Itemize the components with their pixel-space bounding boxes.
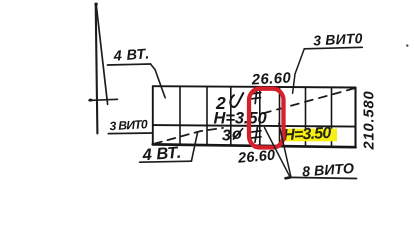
- svg-text:4 ВТ.: 4 ВТ.: [112, 46, 150, 65]
- label 3 VITO top-right leader: [293, 49, 305, 93]
- grid column line C5: [279, 87, 281, 146]
- label 8 VITO underline: [290, 177, 356, 178]
- svg-text:210.580: 210.580: [361, 90, 377, 150]
- grid column line C2: [206, 87, 208, 146]
- label 4 VT top underline: [108, 64, 151, 65]
- grid column line C4: [259, 87, 261, 146]
- grid column line C6: [305, 87, 307, 146]
- red box mark bottom (hatch): [251, 127, 261, 142]
- label 4 VT bottom leader: [191, 133, 197, 162]
- mast left line: [96, 4, 98, 134]
- grid bottom edge: [153, 144, 356, 147]
- speck dot top right: [406, 44, 408, 46]
- handwriting o-slash tail: [234, 129, 243, 140]
- mast base dot: [89, 99, 93, 102]
- svg-text:3: 3: [222, 127, 231, 144]
- svg-text:3 ВИТ0: 3 ВИТ0: [109, 117, 148, 133]
- svg-text:Н=3.50: Н=3.50: [283, 125, 332, 144]
- label 8 VITO leader right: [279, 123, 291, 177]
- grid middle line: [153, 125, 356, 127]
- grid right edge: [354, 88, 356, 148]
- svg-text:Н=3.50: Н=3.50: [214, 109, 268, 127]
- grid column line C3: [230, 87, 232, 146]
- red box mark top (hatch): [252, 89, 261, 104]
- grid left edge: [152, 86, 154, 144]
- label 8 VITO arrowhead: [286, 177, 291, 178]
- svg-text:3 ВИТ0: 3 ВИТ0: [313, 30, 363, 49]
- grid column line C7: [331, 87, 333, 146]
- svg-text:26.60: 26.60: [250, 70, 292, 88]
- label 8 VITO leader left: [265, 128, 291, 178]
- mast right line: [96, 5, 107, 105]
- red oval highlight: [249, 89, 284, 148]
- mast base tick: [89, 99, 118, 100]
- svg-text:26.60: 26.60: [236, 148, 276, 167]
- grid top edge: [153, 86, 356, 87]
- mast top blob: [94, 2, 97, 5]
- label 4 VT bottom underline: [140, 161, 192, 162]
- label 4 VT top leader: [151, 64, 166, 98]
- label 3 VITO top-right underline: [304, 47, 362, 49]
- dashed line bottom row: [154, 128, 223, 144]
- grid column line C1: [179, 86, 181, 144]
- handwriting u-glyph row1: [230, 93, 243, 107]
- dashed line top row: [263, 88, 356, 114]
- label 3 VITO left underline: [108, 132, 153, 135]
- yellow highlight: [283, 129, 338, 142]
